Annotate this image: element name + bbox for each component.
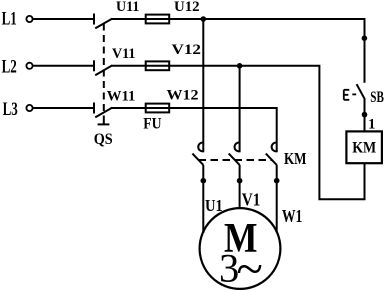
svg-text:W11: W11 [107, 89, 136, 105]
wire SB to KM coil [364, 99, 366, 131]
junction dot pole 2 lower [237, 178, 243, 184]
svg-text:W12: W12 [167, 88, 199, 104]
contactor coil KM box [346, 131, 382, 163]
pushbutton SB label [370, 89, 384, 106]
wire U phase vertical [202, 19, 204, 152]
QS interlock dashed line [103, 24, 105, 119]
node U12 label [174, 0, 200, 15]
contactor KM main contacts label [284, 149, 307, 168]
motor 3 digit [219, 245, 239, 290]
svg-text:FU: FU [143, 115, 162, 132]
svg-text:W1: W1 [282, 206, 303, 226]
junction dot pole 3 lower [274, 178, 280, 184]
switch QS pole 1 blade [95, 19, 112, 29]
contactor KM pole 1 blade [192, 154, 203, 165]
terminal circle L1 [26, 16, 32, 22]
contactor KM pole 3 blade [266, 154, 277, 165]
switch QS pole 3 blade [95, 108, 112, 118]
contactor KM pole 1 arc [198, 143, 203, 152]
switch QS pole 2 blade [95, 65, 112, 75]
switch QS pole 2 fixed contact [93, 60, 95, 71]
svg-text:SB: SB [370, 89, 384, 106]
junction dot node 1 [362, 112, 368, 118]
node L1 [2, 9, 17, 30]
wire pole 1 lower with junction dot [202, 165, 204, 233]
node U1 label [205, 196, 223, 215]
fuse FU pole 3 (W11-W12) [146, 104, 170, 113]
svg-text:L1: L1 [2, 9, 17, 30]
wire pole 3 lower [276, 165, 278, 232]
svg-text:QS: QS [94, 131, 113, 148]
svg-text:~: ~ [236, 241, 263, 292]
junction dot pole 1 lower [201, 178, 207, 184]
terminal circle L3 [26, 105, 32, 111]
svg-text:V12: V12 [172, 42, 202, 58]
motor ~ tilde [236, 241, 263, 292]
node V1 label [242, 190, 261, 210]
wire L2 to QS [33, 65, 94, 67]
wire L3 to QS [33, 107, 94, 109]
motor M letter [224, 216, 258, 262]
switch QS pole 3 fixed contact [93, 103, 95, 114]
switch QS label [94, 131, 113, 148]
svg-text:V1: V1 [242, 190, 261, 210]
wire U11 segment through fuse then down right side to SB [112, 19, 365, 83]
svg-text:L3: L3 [3, 99, 18, 120]
fuse FU label [143, 115, 162, 132]
node U11 label [116, 0, 139, 15]
switch QS pole 1 fixed contact [93, 14, 95, 25]
junction dot control tap [362, 35, 368, 41]
node L2 [2, 57, 17, 78]
wire V phase vertical [239, 66, 241, 152]
QS handle tee bar [98, 123, 110, 125]
node W11 label [107, 89, 136, 105]
node V11 label [112, 46, 135, 62]
svg-text:1: 1 [368, 117, 376, 133]
wire W11 segment through fuse then down to KM pole 3 [112, 108, 277, 152]
svg-text:KM: KM [284, 149, 307, 168]
node V12 label [172, 42, 202, 58]
contactor KM pole 2 arc [235, 143, 240, 152]
svg-text:KM: KM [352, 139, 376, 156]
terminal circle L2 [26, 63, 32, 69]
wire V11 segment through fuse, down control return, to KM coil bottom [112, 66, 365, 200]
contactor coil KM label [352, 139, 376, 156]
node 1 label [368, 117, 376, 133]
node L3 [3, 99, 18, 120]
wire pole 2 lower [239, 165, 241, 209]
node W1 label [282, 206, 303, 226]
junction dot row2 / V phase [237, 63, 243, 69]
svg-text:V11: V11 [112, 46, 135, 62]
motor M circle [200, 208, 281, 289]
svg-text:U11: U11 [116, 0, 139, 15]
contactor KM pole 3 arc [272, 143, 277, 152]
contactor KM interlock dashed line [199, 159, 273, 161]
svg-text:L2: L2 [2, 57, 17, 78]
pushbutton SB blade [357, 84, 365, 99]
fuse FU pole 2 (V11-V12) [146, 61, 170, 70]
QS handle tee stem [103, 118, 105, 124]
pushbutton SB actuator dashed link [352, 93, 356, 95]
wire L1 to QS [33, 18, 94, 20]
svg-text:U12: U12 [174, 0, 200, 15]
pushbutton SB actuator E shape [344, 90, 350, 100]
node W12 label [167, 88, 199, 104]
junction dot row1 / U phase [201, 16, 207, 22]
fuse FU pole 1 (U11-U12) [146, 15, 170, 24]
contactor KM pole 2 blade [229, 154, 240, 165]
